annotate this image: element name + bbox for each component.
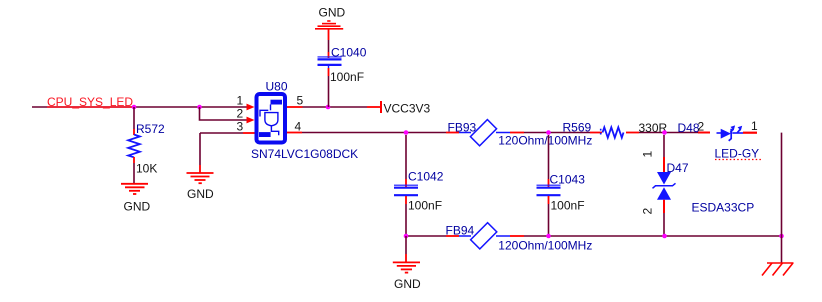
svg-text:VCC3V3: VCC3V3 — [384, 102, 431, 116]
resistor R569 — [590, 132, 602, 134]
svg-text:GND: GND — [319, 5, 346, 19]
svg-text:3: 3 — [237, 120, 244, 134]
svg-text:4: 4 — [295, 120, 302, 134]
svg-text:LED-GY: LED-GY — [715, 147, 760, 161]
node junction bottom left — [404, 234, 409, 239]
svg-text:U80: U80 — [266, 80, 288, 94]
ground GND at pin3 — [187, 173, 214, 183]
node junction at D47 top — [662, 130, 667, 135]
wire FB93 to R569 — [524, 132, 590, 134]
wire pin4 run — [287, 132, 302, 134]
svg-text:GND: GND — [394, 277, 421, 291]
wire GND to C1040 — [328, 29, 330, 40]
node junction bottom C1043 — [546, 234, 551, 239]
wire C1042 column — [405, 135, 407, 179]
capacitor C1043 — [537, 185, 561, 195]
svg-text:1: 1 — [641, 151, 655, 158]
svg-text:2: 2 — [641, 208, 655, 215]
svg-text:FB94: FB94 — [446, 224, 475, 238]
wire R572 bottom lead — [133, 157, 135, 163]
wire R572 top lead — [133, 107, 135, 129]
wire GND under C1042 — [405, 236, 407, 254]
ground GND bottom — [393, 262, 420, 272]
svg-text:100nF: 100nF — [408, 199, 442, 213]
svg-text:FB93: FB93 — [448, 120, 477, 134]
power port VCC3V3 — [380, 101, 382, 113]
wire red underline of net label — [47, 106, 134, 108]
node junction at C1042 top — [404, 130, 409, 135]
svg-text:120Ohm/100MHz: 120Ohm/100MHz — [498, 239, 592, 253]
svg-text:GND: GND — [187, 187, 214, 201]
svg-text:R569: R569 — [563, 120, 592, 134]
svg-text:120Ohm/100MHz: 120Ohm/100MHz — [498, 134, 592, 148]
svg-text:ESDA33CP: ESDA33CP — [692, 201, 755, 215]
svg-text:SN74LVC1G08DCK: SN74LVC1G08DCK — [251, 147, 358, 161]
svg-text:R572: R572 — [136, 122, 165, 136]
node junction at pin1 branch — [197, 105, 202, 110]
svg-text:GND: GND — [124, 200, 151, 214]
svg-text:1: 1 — [237, 94, 244, 108]
wire pin5 to VCC — [287, 106, 303, 108]
node junction at C1040 — [326, 105, 331, 110]
svg-text:1: 1 — [751, 119, 758, 133]
op-amp U80 body SN74LVC1G08DCK — [257, 94, 286, 143]
wire C1043 column — [548, 135, 550, 179]
capacitor C1042 — [394, 185, 418, 195]
pin 1 arrow — [247, 104, 255, 111]
wire CPU_SYS_LED main horizontal — [32, 106, 247, 108]
node junction bottom D47 — [662, 234, 667, 239]
wire R569 to D48 — [639, 132, 698, 134]
node junction at C1043 top — [546, 130, 551, 135]
capacitor C1040 — [318, 57, 342, 68]
svg-text:C1040: C1040 — [331, 46, 367, 60]
svg-text:100nF: 100nF — [551, 199, 585, 213]
node junction at R572 — [132, 105, 137, 110]
wire right rail — [781, 133, 783, 263]
svg-text:C1042: C1042 — [408, 170, 444, 184]
svg-text:C1043: C1043 — [550, 173, 586, 187]
chassis ground — [762, 263, 794, 276]
svg-text:5: 5 — [297, 94, 304, 108]
wire D47 bottom lead — [663, 200, 665, 213]
ground GND under R572 — [121, 184, 148, 194]
wire pin3 to GND — [243, 132, 255, 134]
svg-text:100nF: 100nF — [330, 70, 364, 84]
resistor R572 — [128, 135, 140, 158]
ferrite bead FB94 — [446, 235, 459, 237]
svg-text:10K: 10K — [136, 162, 157, 176]
pin 2 arrow — [247, 117, 255, 124]
wire D47 top lead — [663, 135, 665, 157]
node junction bottom right — [779, 234, 784, 239]
wire bottom rail — [406, 235, 446, 237]
wire pin2 branch — [200, 107, 248, 120]
wire C1040 to pin5 wire — [328, 68, 330, 76]
ferrite bead FB93 — [446, 132, 459, 134]
svg-text:D48: D48 — [678, 121, 700, 135]
